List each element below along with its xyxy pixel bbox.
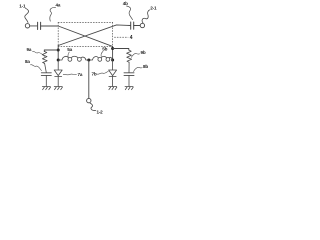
leader 4b (127, 6, 133, 20)
svg-text:8a: 8a (25, 59, 30, 64)
capacitor 8b (124, 73, 134, 76)
capacitor 8a (41, 73, 51, 76)
leader 8a (31, 65, 42, 71)
inductor 5a (58, 56, 89, 61)
svg-text:8b: 8b (143, 64, 148, 69)
terminal 2-1 (140, 10, 149, 28)
wire resistor 9a to capacitor 8a (45, 63, 47, 72)
svg-text:4a: 4a (56, 3, 61, 8)
svg-text:4b: 4b (123, 1, 128, 6)
amplifier box 4 (dashed) (58, 22, 112, 46)
svg-text:9b: 9b (141, 50, 146, 55)
wire right feed (113, 49, 129, 51)
node rail right (111, 59, 114, 62)
node rail left (57, 59, 60, 62)
cross-coupled wire A (58, 26, 112, 46)
leader 5b (101, 51, 103, 56)
leader 5a (68, 52, 69, 57)
terminal 1-2 (87, 98, 96, 110)
leader 9a (33, 51, 45, 56)
wire varactor 7a to ground (57, 76, 59, 86)
leader 7b (97, 71, 108, 74)
node center tap (87, 59, 90, 62)
svg-text:2-1: 2-1 (150, 6, 157, 11)
left vertical wire (box to rail) (57, 46, 59, 61)
resistor 9b (127, 50, 132, 62)
wire capacitor 4a to box (41, 25, 59, 27)
svg-text:1-2: 1-2 (97, 110, 104, 115)
svg-text:1-1: 1-1 (19, 4, 26, 9)
varactor 7b (109, 70, 117, 76)
leader 4 (dashed) (115, 36, 129, 38)
wire rail to varactor 7a (57, 60, 59, 70)
ground under 7a (54, 87, 62, 90)
resistor 9a (42, 51, 47, 63)
wire left feed (44, 50, 58, 52)
capacitor 4a (38, 22, 41, 29)
wire center tap to terminal (88, 60, 90, 98)
node left feed (57, 49, 60, 52)
wire resistor 9b to capacitor 8b (128, 62, 130, 72)
svg-text:9a: 9a (27, 47, 32, 52)
leader 8b (134, 67, 143, 71)
svg-text:7a: 7a (78, 72, 83, 77)
cross-coupled wire B (58, 25, 130, 46)
svg-text:4: 4 (130, 35, 133, 41)
svg-text:7b: 7b (92, 72, 97, 77)
wire varactor 7b to ground (112, 76, 114, 86)
ground under 8b (125, 87, 133, 90)
ground under 7b (109, 87, 117, 90)
leader 4a (50, 7, 56, 21)
right vertical wire (box to rail) (112, 46, 114, 60)
wire capacitor 4b to terminal (134, 25, 140, 27)
terminal 1-1 (25, 8, 30, 28)
wire rail to varactor 7b (112, 60, 114, 70)
inductor 5b (89, 56, 112, 61)
capacitor 4b (131, 22, 134, 29)
wire capacitor 8b to ground (128, 75, 130, 86)
leader 9b (131, 53, 139, 57)
varactor 7a (54, 70, 62, 76)
wire capacitor 8a to ground (45, 75, 47, 86)
leader 7a (63, 73, 76, 76)
svg-text:5a: 5a (67, 47, 72, 52)
wire terminal to capacitor 4a (30, 25, 37, 27)
svg-text:5b: 5b (102, 47, 107, 52)
ground under 8a (42, 87, 50, 90)
node right feed (111, 47, 114, 50)
